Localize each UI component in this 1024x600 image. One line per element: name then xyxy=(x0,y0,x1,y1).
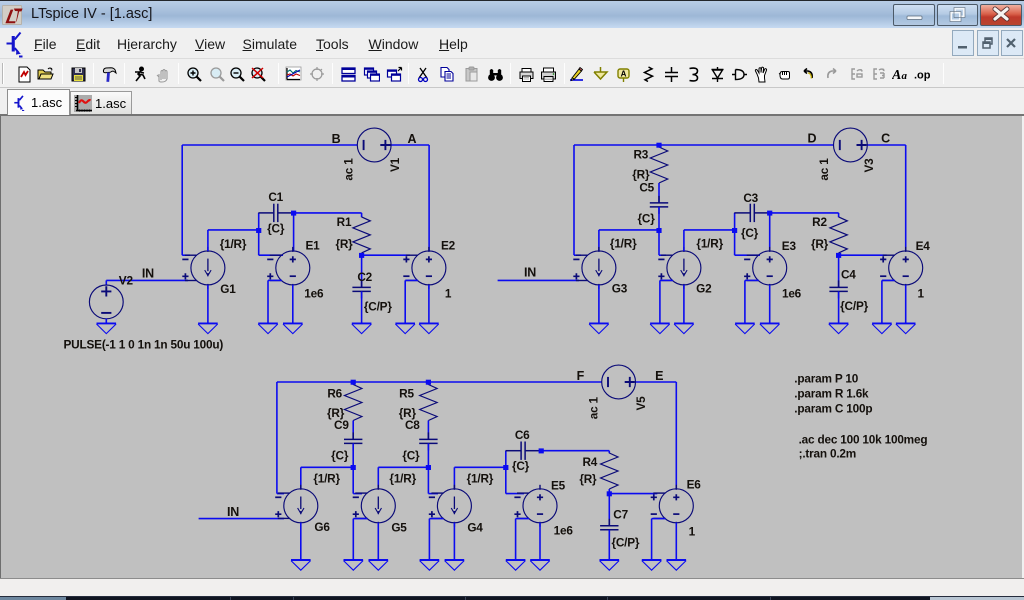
svg-text:R1: R1 xyxy=(337,215,352,229)
svg-text:.ac dec 100 10k 100meg: .ac dec 100 10k 100meg xyxy=(799,432,928,446)
svg-text:G3: G3 xyxy=(612,282,628,296)
svg-text:ac 1: ac 1 xyxy=(341,158,355,181)
svg-text:G4: G4 xyxy=(467,520,483,534)
svg-text:R5: R5 xyxy=(399,387,414,401)
svg-text:C3: C3 xyxy=(743,191,758,205)
svg-text:{C}: {C} xyxy=(267,221,285,235)
svg-text:{C}: {C} xyxy=(512,459,530,473)
svg-text:C7: C7 xyxy=(613,508,628,522)
svg-text:A: A xyxy=(407,132,416,146)
svg-text:{C}: {C} xyxy=(331,448,349,462)
svg-text:R6: R6 xyxy=(327,387,342,401)
svg-text:{C}: {C} xyxy=(741,226,759,240)
svg-text:{1/R}: {1/R} xyxy=(313,472,340,486)
svg-text:E6: E6 xyxy=(687,478,702,492)
svg-text:V2: V2 xyxy=(119,274,134,288)
svg-text:G6: G6 xyxy=(314,520,330,534)
svg-text:C5: C5 xyxy=(639,181,654,195)
svg-text:{C/P}: {C/P} xyxy=(364,299,392,313)
svg-text:E4: E4 xyxy=(916,239,931,253)
svg-text:1e6: 1e6 xyxy=(782,287,802,301)
svg-text:1e6: 1e6 xyxy=(554,523,574,537)
svg-text:{R}: {R} xyxy=(335,237,353,251)
svg-text:F: F xyxy=(577,369,585,383)
svg-text:ac 1: ac 1 xyxy=(587,396,601,419)
svg-text:{C}: {C} xyxy=(402,448,420,462)
svg-text:ac 1: ac 1 xyxy=(817,158,831,181)
svg-text:;.tran 0.2m: ;.tran 0.2m xyxy=(799,447,856,461)
svg-text:V3: V3 xyxy=(862,158,876,173)
svg-text:C6: C6 xyxy=(515,428,530,442)
svg-text:.param P 10: .param P 10 xyxy=(794,372,858,386)
svg-text:C1: C1 xyxy=(268,190,283,204)
svg-text:PULSE(-1 1 0 1n 1n 50u 100u): PULSE(-1 1 0 1n 1n 50u 100u) xyxy=(64,338,224,352)
svg-text:C2: C2 xyxy=(357,270,372,284)
svg-text:1: 1 xyxy=(918,287,925,301)
svg-text:1: 1 xyxy=(445,286,452,300)
svg-text:C: C xyxy=(881,132,890,146)
svg-text:V5: V5 xyxy=(634,396,648,411)
svg-text:R3: R3 xyxy=(633,148,648,162)
svg-text:{C/P}: {C/P} xyxy=(611,536,639,550)
svg-text:C8: C8 xyxy=(405,418,420,432)
svg-text:1: 1 xyxy=(689,524,696,538)
svg-text:{C}: {C} xyxy=(638,212,656,226)
svg-text:IN: IN xyxy=(524,266,536,280)
svg-text:{1/R}: {1/R} xyxy=(696,236,723,250)
svg-text:1e6: 1e6 xyxy=(304,286,324,300)
svg-text:G5: G5 xyxy=(391,520,407,534)
svg-text:R2: R2 xyxy=(812,215,827,229)
svg-text:C4: C4 xyxy=(841,268,856,282)
svg-text:E5: E5 xyxy=(551,479,566,493)
svg-text:IN: IN xyxy=(142,266,154,280)
svg-text:IN: IN xyxy=(227,505,239,519)
svg-text:G1: G1 xyxy=(220,282,236,296)
svg-text:G2: G2 xyxy=(696,282,712,296)
svg-text:E2: E2 xyxy=(441,239,456,253)
svg-text:E3: E3 xyxy=(782,239,797,253)
svg-text:{1/R}: {1/R} xyxy=(389,472,416,486)
svg-text:{R}: {R} xyxy=(811,237,829,251)
svg-text:{R}: {R} xyxy=(632,168,650,182)
svg-text:{1/R}: {1/R} xyxy=(467,472,494,486)
svg-text:V1: V1 xyxy=(388,157,402,172)
svg-text:D: D xyxy=(807,132,816,146)
svg-text:C9: C9 xyxy=(334,418,349,432)
svg-text:{1/R}: {1/R} xyxy=(220,237,247,251)
svg-text:{1/R}: {1/R} xyxy=(610,236,637,250)
svg-text:{R}: {R} xyxy=(579,472,597,486)
svg-text:{C/P}: {C/P} xyxy=(840,299,868,313)
svg-text:.param R 1.6k: .param R 1.6k xyxy=(794,387,869,401)
svg-text:E1: E1 xyxy=(305,239,320,253)
svg-text:E: E xyxy=(655,369,663,383)
svg-text:R4: R4 xyxy=(582,455,597,469)
svg-text:B: B xyxy=(332,132,341,146)
svg-text:.param C 100p: .param C 100p xyxy=(794,401,872,415)
